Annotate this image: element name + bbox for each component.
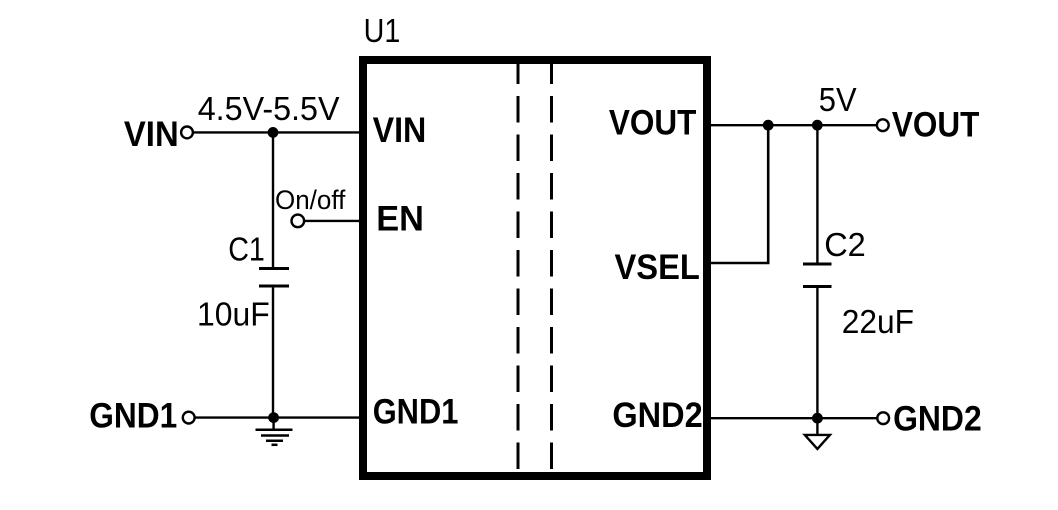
wire EN terminal to U1 (304, 220, 363, 222)
svg-text:VSEL: VSEL (615, 248, 700, 287)
terminal GND2 open circle (877, 412, 889, 424)
wire C1 bottom plate to GND1 rail (272, 286, 274, 418)
terminal EN open circle (292, 215, 305, 228)
svg-text:4.5V-5.5V: 4.5V-5.5V (198, 91, 340, 128)
wire U1 VOUT pin to VOUT terminal (707, 124, 877, 126)
junction node GND1 / C1 (268, 412, 279, 423)
svg-text:EN: EN (376, 200, 424, 239)
svg-text:VOUT: VOUT (609, 103, 697, 142)
capacitor C1 bottom plate (259, 285, 289, 288)
svg-text:VIN: VIN (124, 115, 179, 154)
junction node VOUT / C2 (812, 120, 823, 131)
capacitor C2 top plate (803, 263, 832, 266)
svg-text:GND2: GND2 (893, 400, 982, 439)
capacitor C1 top plate (259, 267, 289, 270)
wire U1 VSEL pin to riser (707, 262, 770, 265)
wire VOUT node down to C2 top plate (816, 125, 818, 264)
svg-text:U1: U1 (364, 13, 401, 50)
ground earth symbol on GND1 rail (256, 418, 293, 445)
wire GND1 terminal to U1 (195, 416, 363, 418)
svg-text:C2: C2 (824, 227, 866, 264)
svg-text:GND2: GND2 (612, 396, 702, 435)
isolation barrier dashed line right (550, 64, 553, 472)
svg-text:10uF: 10uF (197, 296, 270, 333)
svg-text:VOUT: VOUT (892, 105, 980, 144)
wire U1 GND2 pin to GND2 terminal (707, 417, 877, 419)
wire VIN node down to C1 top plate (272, 132, 274, 268)
junction node VIN / C1 (268, 127, 279, 138)
terminal VOUT open circle (877, 119, 889, 131)
isolation barrier dashed line left (517, 64, 520, 472)
svg-text:GND1: GND1 (89, 396, 177, 435)
IC U1 body (363, 60, 707, 476)
svg-text:GND1: GND1 (373, 393, 459, 432)
wire VSEL riser vertical (767, 125, 770, 263)
junction node GND2 / C2 (812, 413, 823, 424)
svg-text:C1: C1 (228, 231, 265, 268)
junction node VOUT / VSEL riser (763, 120, 774, 131)
svg-text:22uF: 22uF (842, 304, 914, 341)
ground chassis triangle on GND2 rail (805, 418, 830, 449)
wire C2 bottom plate to GND2 rail (816, 287, 818, 419)
wire VIN terminal to U1 (193, 131, 363, 133)
svg-text:On/off: On/off (275, 185, 346, 215)
capacitor C2 bottom plate (803, 285, 832, 288)
terminal GND1 open circle (183, 412, 195, 424)
svg-text:VIN: VIN (373, 111, 427, 150)
terminal VIN open circle (181, 126, 193, 138)
svg-text:5V: 5V (819, 82, 857, 119)
